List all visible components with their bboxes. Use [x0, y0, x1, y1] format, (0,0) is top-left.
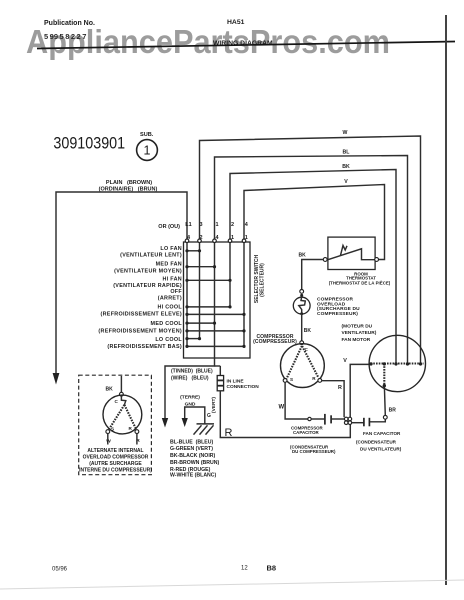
winding left: [109, 405, 125, 430]
svg-text:SUB.: SUB.: [140, 132, 154, 138]
junction cluster: [344, 417, 348, 421]
svg-text:(TERRE): (TERRE): [180, 395, 200, 401]
svg-text:V: V: [343, 358, 347, 364]
svg-text:HI FAN: HI FAN: [163, 277, 182, 283]
svg-text:R: R: [338, 385, 342, 391]
wire L1 brown line to plug: [56, 192, 187, 374]
svg-text:HI COOL: HI COOL: [157, 305, 182, 311]
svg-text:CAPACITOR: CAPACITOR: [293, 430, 320, 435]
wire switch 2 to BK loop: [230, 170, 396, 364]
svg-text:G-GREEN (VERT): G-GREEN (VERT): [170, 446, 213, 452]
svg-text:BK: BK: [304, 328, 312, 334]
svg-text:DU VENTILATEUR): DU VENTILATEUR): [360, 446, 402, 451]
arrow blue wire: [162, 418, 168, 428]
svg-text:W-WHITE (BLANC): W-WHITE (BLANC): [170, 473, 217, 479]
header rule: [37, 42, 455, 49]
switch internal wire 1: [186, 243, 188, 347]
contact row LO COOL a: [187, 338, 200, 340]
svg-text:B8: B8: [267, 564, 277, 573]
contact row LO COOL b: [187, 345, 244, 347]
svg-text:(ARRET): (ARRET): [158, 296, 182, 302]
svg-text:OFF: OFF: [170, 289, 182, 295]
svg-text:ALTERNATE INTERNAL: ALTERNATE INTERNAL: [87, 448, 143, 454]
svg-text:PLAIN (BROWN): PLAIN (BROWN): [106, 180, 152, 186]
svg-text:(AUTRE SURCHARGE: (AUTRE SURCHARGE: [89, 461, 142, 467]
svg-text:BR-BROWN (BRUN): BR-BROWN (BRUN): [170, 460, 220, 466]
arrow brown wire end: [53, 373, 60, 385]
wire switch 1 to BL loop: [215, 156, 408, 364]
svg-text:2: 2: [231, 222, 234, 228]
svg-text:1: 1: [215, 222, 218, 228]
fan aux terminal: [383, 415, 387, 419]
wire switch 4 to V loop thermostat: [244, 185, 385, 260]
wire R compressor to junction: [322, 381, 344, 418]
thermostat contact blade: [328, 249, 375, 260]
svg-text:W: W: [343, 130, 348, 136]
svg-text:R: R: [136, 438, 140, 444]
wire W alternate: [107, 434, 109, 445]
svg-text:BK: BK: [299, 252, 307, 258]
contact row HI COOL a: [187, 306, 230, 308]
svg-text:(CONDENSATEUR: (CONDENSATEUR: [356, 439, 397, 444]
svg-text:DU COMPRESSEUR): DU COMPRESSEUR): [292, 449, 336, 454]
overload caption: [317, 296, 360, 317]
svg-text:Publication No.: Publication No.: [44, 20, 95, 27]
svg-text:BK-BLACK (NOIR): BK-BLACK (NOIR): [170, 453, 216, 459]
wire switch 3 to W loop: [200, 136, 421, 364]
overload contact inside: [299, 297, 306, 313]
selector switch box: [184, 242, 251, 358]
svg-text:BK: BK: [342, 164, 350, 170]
svg-text:W: W: [278, 405, 284, 411]
thermostat left terminal: [323, 258, 327, 262]
page bottom faint edge: [0, 580, 464, 589]
room thermostat box: [328, 237, 375, 269]
thermostat right terminal: [375, 258, 379, 262]
svg-text:(COMPRESSEUR): (COMPRESSEUR): [253, 339, 297, 345]
compressor overload circle: [293, 297, 310, 314]
svg-text:FAN MOTOR: FAN MOTOR: [342, 337, 371, 343]
svg-text:IN LINE: IN LINE: [227, 379, 245, 385]
in line connection: [217, 376, 223, 391]
inline terminal on W wire: [308, 417, 311, 420]
svg-text:(VENTILATEUR LENT): (VENTILATEUR LENT): [120, 253, 182, 259]
blue tinned wire below switch: [165, 358, 215, 419]
terminal S alternate: [106, 430, 110, 434]
alternate compressor caption: [79, 448, 152, 474]
contact row MED COOL a: [187, 322, 215, 324]
svg-text:MED COOL: MED COOL: [151, 321, 183, 327]
fan motor circle: [369, 335, 425, 391]
switch terminals top: [185, 239, 189, 243]
wire V fan to junction: [350, 364, 370, 417]
svg-text:(REFROIDISSEMENT BAS): (REFROIDISSEMENT BAS): [107, 344, 182, 350]
svg-text:W: W: [106, 439, 111, 445]
switch internal wire 2: [199, 243, 201, 339]
switch row labels: [98, 246, 182, 350]
svg-text:G: G: [207, 413, 211, 419]
svg-text:(SELECTEUR): (SELECTEUR): [260, 263, 266, 297]
compressor terminal S: [283, 379, 287, 383]
svg-text:OR (OU): OR (OU): [158, 224, 180, 230]
svg-text:HA51: HA51: [227, 19, 245, 26]
wire W compressor S to capacitor: [285, 382, 308, 419]
svg-text:12: 12: [241, 566, 248, 572]
red wire from connector to junction: [220, 391, 350, 438]
svg-text:VENTILATEUR): VENTILATEUR): [342, 330, 377, 336]
winding right: [124, 405, 136, 430]
compressor terminal C: [300, 341, 304, 345]
svg-text:BL: BL: [343, 150, 351, 156]
terminal C alternate: [120, 392, 124, 396]
wire colour legend: [170, 440, 220, 479]
fan main winding: [371, 362, 424, 364]
contact row MED COOL b: [187, 330, 244, 332]
wire R alternate: [136, 434, 138, 445]
svg-text:COMPRESSEUR): COMPRESSEUR): [317, 311, 358, 317]
wire overload to compressor: [301, 314, 303, 341]
svg-text:(MOTEUR DU: (MOTEUR DU: [342, 324, 373, 330]
page right border: [445, 15, 447, 585]
svg-text:FAN CAPACITOR: FAN CAPACITOR: [363, 431, 401, 436]
svg-text:(REFROIDISSEMENT ELEVE): (REFROIDISSEMENT ELEVE): [101, 312, 182, 318]
svg-text:OVERLOAD COMPRESSOR: OVERLOAD COMPRESSOR: [83, 454, 149, 460]
svg-text:BK: BK: [106, 387, 114, 393]
alternate compressor motor circle: [103, 395, 142, 434]
thermostat bimetal squiggle: [341, 246, 348, 256]
svg-text:BR: BR: [389, 408, 397, 414]
switch internal wire 3: [214, 243, 216, 359]
svg-text:(THERMOSTAT DE LA PIÈCE): (THERMOSTAT DE LA PIÈCE): [329, 280, 391, 285]
svg-text:AppliancePartsPros.com: AppliancePartsPros.com: [26, 23, 390, 60]
svg-text:S: S: [111, 426, 114, 431]
svg-text:05/96: 05/96: [52, 567, 68, 573]
switch internal wire 4: [229, 243, 231, 307]
svg-text:(WIRE) (BLEU): (WIRE) (BLEU): [171, 376, 209, 382]
svg-text:5 99 5 8 2 2 7: 5 99 5 8 2 2 7: [44, 32, 86, 41]
svg-text:BL-BLUE (BLEU): BL-BLUE (BLEU): [170, 440, 213, 446]
compressor circle: [281, 344, 325, 388]
switch internal wire 5: [243, 243, 245, 347]
overload terminal top: [300, 290, 304, 294]
terminal R alternate: [135, 430, 139, 434]
compressor winding right: [302, 346, 318, 377]
svg-text:(VERT): (VERT): [211, 397, 217, 413]
svg-text:(TINNED) (BLUE): (TINNED) (BLUE): [171, 369, 213, 375]
contact row MED FAN: [187, 266, 215, 268]
compressor capacitor: [324, 414, 326, 425]
compressor winding left: [287, 346, 302, 379]
ground symbol: [197, 423, 215, 425]
internal overload jog: [121, 396, 125, 405]
svg-text:CONNECTION: CONNECTION: [227, 384, 260, 390]
svg-text:(REFROIDISSEMENT MOYEN): (REFROIDISSEMENT MOYEN): [98, 328, 182, 334]
svg-text:L1: L1: [185, 222, 191, 228]
svg-text:(VENTILATEUR MOYEN): (VENTILATEUR MOYEN): [114, 268, 182, 274]
fan winding taps: [369, 362, 372, 365]
svg-text:S: S: [290, 377, 293, 382]
svg-text:LO FAN: LO FAN: [160, 246, 182, 252]
contact row HI FAN: [187, 279, 230, 281]
svg-text:1: 1: [144, 144, 151, 158]
svg-text:INTERNE DU COMPRESSEUR): INTERNE DU COMPRESSEUR): [79, 467, 152, 473]
wire thermostat to overload: [302, 260, 324, 290]
fan aux winding: [383, 364, 385, 386]
svg-text:V: V: [344, 179, 348, 185]
fan capacitor: [352, 422, 364, 424]
svg-text:LO COOL: LO COOL: [155, 337, 182, 343]
svg-text:309103901: 309103901: [53, 134, 125, 153]
svg-text:MED FAN: MED FAN: [156, 262, 182, 268]
wire into alternate compressor: [120, 376, 122, 392]
compressor terminal R: [318, 379, 322, 383]
contact row LO FAN: [187, 250, 200, 252]
contact row HI COOL b: [187, 313, 244, 315]
svg-text:R: R: [225, 427, 233, 439]
alternate compressor dashed box: [79, 375, 152, 475]
